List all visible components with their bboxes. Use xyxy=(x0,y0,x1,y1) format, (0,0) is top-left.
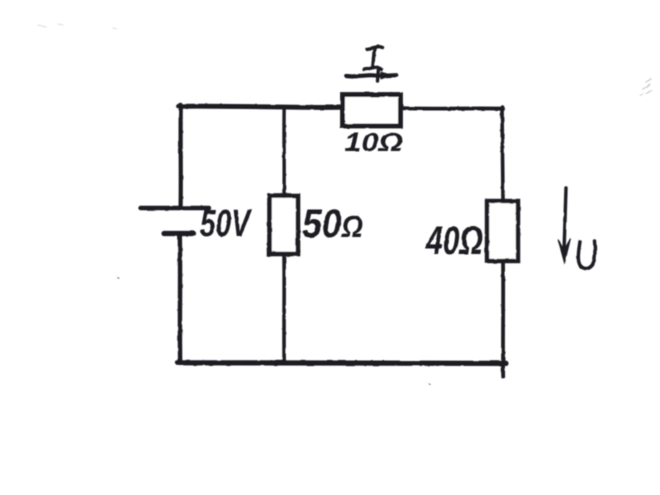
wire left vertical lower (battery - to bottom node) xyxy=(178,235,183,363)
current label I xyxy=(364,47,383,82)
wire left vertical upper (node to battery +) xyxy=(179,105,183,206)
wire top right segment xyxy=(402,106,503,110)
svg-text:50V: 50V xyxy=(200,203,252,245)
scan speck below bottom wire xyxy=(429,383,430,386)
voltage arrow U (pointing down) xyxy=(558,188,571,263)
current arrow (pointing right) xyxy=(347,72,397,79)
wire right vertical upper xyxy=(502,107,503,200)
svg-text:50Ω: 50Ω xyxy=(302,202,363,246)
svg-text:40Ω: 40Ω xyxy=(425,219,483,263)
wire middle vertical lower xyxy=(282,255,286,363)
resistor R2 50ohm body xyxy=(270,196,299,255)
battery B1 long plate (+) xyxy=(141,206,210,210)
label 50V xyxy=(200,203,252,245)
faint scan smudge top right xyxy=(640,79,652,96)
battery B1 short plate (-) xyxy=(164,231,193,236)
label U xyxy=(578,241,595,269)
label 50ohm xyxy=(302,202,363,246)
label 40ohm xyxy=(425,219,483,263)
wire top left segment xyxy=(179,106,342,107)
svg-text:10Ω: 10Ω xyxy=(344,127,403,157)
resistor R3 40ohm body xyxy=(487,201,518,261)
wire bottom xyxy=(178,360,507,366)
label 10ohm xyxy=(344,127,403,157)
resistor R1 10ohm body xyxy=(343,95,401,127)
wire right vertical lower xyxy=(501,261,505,377)
faint scan smudge top left xyxy=(38,24,117,29)
scan speck left xyxy=(118,277,119,279)
wire middle vertical upper xyxy=(282,107,286,194)
